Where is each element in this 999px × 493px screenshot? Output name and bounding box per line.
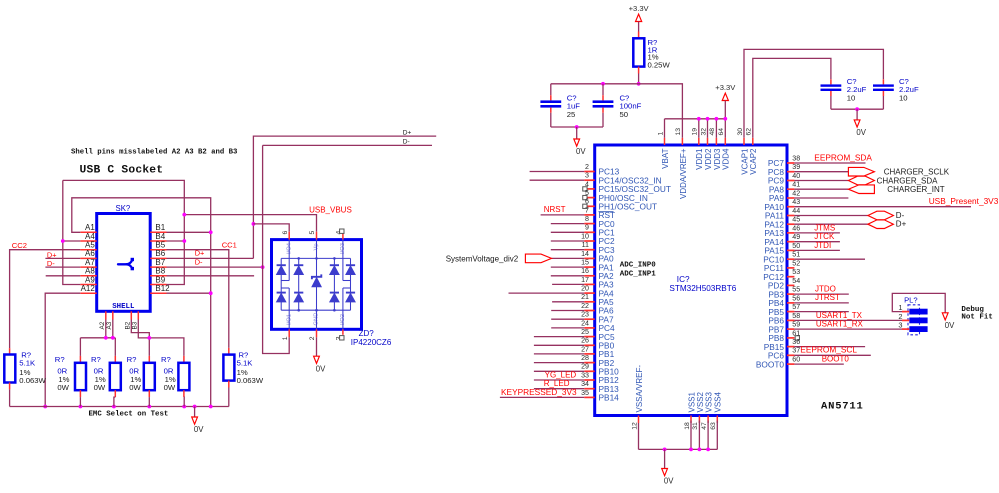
pin 50 PA15 [787,249,794,251]
svg-text:41: 41 [792,181,800,189]
wire CC2 resistor bottom to rail [9,389,11,406]
svg-text:EEPROM_SDA: EEPROM_SDA [814,152,872,162]
svg-text:ADC_INP0: ADC_INP0 [620,262,657,270]
pin 5 PH0/OSC_IN [584,197,594,199]
wire +3.3V to VDD bus [724,101,726,119]
pin 53 PC12 [787,276,794,278]
svg-text:15: 15 [581,259,589,267]
svg-text:IC?: IC? [677,275,690,284]
svg-text:24: 24 [581,319,589,327]
pin 39 PC8 [787,171,794,173]
pin 37 PC6 [787,354,794,356]
pin 34 PB13 [584,388,594,390]
pin 54 PD2 [787,284,794,286]
svg-text:VCAP1: VCAP1 [740,148,749,175]
svg-text:27: 27 [581,345,589,353]
junction USB_VBUS tap [182,213,186,217]
svg-text:ADC_INP1: ADC_INP1 [620,270,657,278]
svg-text:30: 30 [737,128,744,136]
svg-text:19: 19 [692,128,699,136]
junction A12-rail [43,405,47,409]
power symbol +3.3V (above R 1R) [636,14,642,21]
svg-text:YG_LED: YG_LED [545,371,577,380]
svg-text:17: 17 [581,276,589,284]
svg-text:B8: B8 [155,267,165,276]
wire CC1 resistor bottom to rail [228,388,230,407]
ZD diodes [277,265,356,302]
svg-text:10: 10 [899,93,908,102]
pin 57 PB5 [787,311,794,313]
svg-text:0V: 0V [664,477,674,486]
pin 29 PB10 [584,370,594,372]
wire VSS3 riser [707,421,709,450]
svg-text:45: 45 [792,216,800,224]
svg-text:VSSA/VREF-: VSSA/VREF- [635,365,644,413]
svg-text:VSS3: VSS3 [705,391,714,412]
svg-text:0V: 0V [194,425,204,434]
resistor R? 5.1K (CC1) [228,348,230,355]
mcu IC? STM32H503RBT6 body [595,145,787,416]
ZD pin 6 stub [288,232,290,240]
wire net USB_VBUS: B4 to vertical [167,240,185,242]
ZD center zener diode [312,274,321,286]
svg-text:42: 42 [792,189,800,197]
svg-text:50: 50 [620,110,629,119]
svg-text:R?: R? [55,355,65,364]
wire net GND: B1 to vertical [167,231,211,233]
junction A4 [61,239,65,243]
svg-text:D-: D- [896,211,905,220]
svg-text:62: 62 [746,128,753,136]
wire net D-: riser and top run [263,144,432,146]
svg-text:B7: B7 [155,258,165,267]
svg-text:28: 28 [581,354,589,362]
svg-text:64: 64 [718,128,725,136]
svg-text:29: 29 [581,363,589,371]
PL? pin 3 [909,326,927,332]
pin 22 PA6 [584,310,594,312]
svg-text:18: 18 [684,422,691,430]
svg-text:0V: 0V [576,147,586,156]
pin 18 VSS1 [690,416,692,424]
esd array ZD? IP4220CZ6 body [272,240,362,330]
wire shell pins to 0R resistors group A [105,320,107,338]
svg-text:56: 56 [792,294,800,302]
svg-text:A4: A4 [85,232,95,241]
svg-text:3: 3 [585,172,589,180]
socket left pins A1-A12 stubs and names [80,231,96,233]
no-connect square pin 3 [340,336,344,340]
svg-text:0W: 0W [164,383,176,392]
ZD internal diode network [281,240,350,330]
pin 14 PA0 [584,257,594,259]
pin 62 VCAP2 [752,138,754,145]
pin 2 PC13 [584,171,594,173]
wire PL? pin1 to ground loop [892,293,945,312]
pin 8 PC0 [584,223,594,225]
svg-text:47: 47 [701,422,708,430]
wire +3.3V to resistor R 1R [638,22,640,32]
svg-text:5.1K: 5.1K [237,359,254,368]
svg-text:39: 39 [792,163,800,171]
no-connect square pin 4 [340,229,344,233]
wire VSS2 riser [698,421,700,450]
ground symbol 0V (EMC rail) [194,407,196,418]
usb trident symbol [118,260,132,268]
svg-text:0V: 0V [945,321,955,330]
wire VDD2 riser [707,119,709,138]
junction D+ branch to ZD pin6 [252,222,256,226]
wire shell pins to 0R resistors group B [131,320,149,356]
pin 17 PA3 [584,283,594,285]
svg-text:33: 33 [581,371,589,379]
svg-text:A9: A9 [85,275,95,284]
2.2uF caps bottom rail [831,108,884,110]
svg-text:44: 44 [792,207,800,215]
svg-text:B4: B4 [155,232,165,241]
svg-text:D-: D- [403,139,410,146]
svg-text:26: 26 [581,337,589,345]
port CHARGER_SCLK [848,167,874,176]
svg-text:D+: D+ [403,129,412,136]
resistor R? 0R #3 [148,356,150,363]
svg-text:EMC Select on Test: EMC Select on Test [89,411,169,419]
svg-text:B12: B12 [155,284,170,293]
power symbol +3.3V (VDD bus) [722,93,728,100]
svg-text:IP4220CZ6: IP4220CZ6 [351,338,392,347]
pin 46 PA13 [787,232,794,234]
svg-text:51: 51 [792,251,800,259]
svg-text:A3: A3 [106,321,113,329]
pin 32 VDD2 [707,138,709,145]
svg-text:A7: A7 [85,258,95,267]
svg-text:0V: 0V [856,128,866,137]
wire VSSA to gnd rail [638,423,640,449]
junction cap 100nF top [601,82,605,86]
wire VSS1 riser [690,421,692,450]
pin 10 PC2 [584,240,594,242]
svg-text:1: 1 [898,303,902,312]
ZD pin 4 stub (NC) [342,233,344,240]
svg-text:D+: D+ [896,220,907,229]
ground symbol 0V (caps) [576,127,578,139]
ZD pin 1 stub [288,329,290,337]
svg-text:BOOT0: BOOT0 [822,355,850,364]
svg-text:57: 57 [792,303,800,311]
pin 48 VDD3 [715,138,717,145]
pin 4 PC15/OSC32_OUT [584,188,594,190]
svg-text:VDD2: VDD2 [704,148,713,170]
wire net USB_VBUS: A4/A9 left loop [63,240,81,242]
svg-text:CHARGER_SDA: CHARGER_SDA [877,176,939,185]
svg-text:R?: R? [91,355,101,364]
pin 63 VSS4 [716,416,718,424]
wire net D+: riser and top run [253,136,436,258]
svg-text:5: 5 [309,231,316,235]
ground symbol 0V (VSS) [664,449,666,468]
svg-text:A1: A1 [85,223,95,232]
svg-text:50: 50 [792,242,800,250]
wire net GND: B12 to vertical [167,292,211,294]
svg-text:60: 60 [792,356,800,364]
svg-text:R?: R? [127,355,137,364]
svg-text:D-: D- [195,257,203,266]
pin 59 PB7 [787,328,794,330]
pin 12 VSSA/VREF- [638,416,640,424]
pin 41 PA8 [787,188,794,190]
pin 47 VSS3 [707,416,709,424]
svg-text:JTCK: JTCK [814,232,835,241]
svg-text:VSS4: VSS4 [714,391,723,412]
wire VDD1 riser [698,119,700,138]
svg-text:9: 9 [585,224,589,232]
svg-text:ZD?: ZD? [359,329,375,338]
svg-text:0.063W: 0.063W [19,376,46,385]
wire VBAT riser [664,119,666,138]
svg-text:PL?: PL? [904,295,918,304]
ground rail EMC [10,406,229,408]
svg-text:37: 37 [792,347,800,355]
wire VDD4 riser [724,119,726,138]
svg-text:VSS2: VSS2 [696,391,705,412]
svg-text:NRST: NRST [544,205,566,214]
svg-text:52: 52 [792,259,800,267]
svg-text:B6: B6 [155,249,165,258]
junction R-rail [637,82,641,86]
resistor R? 0R #1 [79,356,81,363]
svg-text:VDD4: VDD4 [722,148,731,170]
pin 25 PC5 [584,336,594,338]
svg-text:USART1_RX: USART1_RX [816,320,864,329]
pin 40 PC9 [787,180,794,182]
wire net D+: B6 to vertical riser [167,257,254,259]
svg-text:+3.3V: +3.3V [629,4,650,13]
pin 36 PB15 [787,346,794,348]
wire R 1R bottom to filtered rail [638,74,640,84]
svg-text:6: 6 [282,231,289,235]
svg-text:23: 23 [581,311,589,319]
svg-text:USART1_TX: USART1_TX [816,311,863,320]
svg-text:VDDA/VREF+: VDDA/VREF+ [679,148,688,199]
pin 1 VBAT [664,138,666,145]
svg-text:11: 11 [582,241,589,249]
ZD junction dots [297,257,300,260]
pin 30 VCAP1 [743,138,745,145]
usb-c socket connector SK? body [97,214,151,312]
svg-text:59: 59 [792,321,800,329]
pin 55 PB3 [787,293,794,295]
svg-text:14: 14 [581,250,589,258]
port D+ [868,220,894,229]
pin 38 PC7 [787,162,794,164]
pin 58 PB6 [787,319,794,321]
PL? pin 1 [909,309,927,315]
pin 15 PA1 [584,266,594,268]
svg-text:SystemVoltage_div2: SystemVoltage_div2 [446,254,519,263]
wire ZD pin2 to ground [316,337,318,356]
svg-text:A8: A8 [85,267,95,276]
pin 11 PC3 [584,249,594,251]
svg-text:USB C Socket: USB C Socket [80,164,164,176]
svg-text:B9: B9 [155,275,165,284]
svg-text:1: 1 [282,336,289,340]
svg-text:35: 35 [581,389,589,397]
ZD pin 3 stub (NC) [342,329,344,335]
junction caps gnd tap [575,125,579,129]
svg-text:KEYPRESSED_3V3: KEYPRESSED_3V3 [501,387,577,397]
svg-text:A5: A5 [85,241,95,250]
svg-text:JTRST: JTRST [815,293,840,302]
PL? pin 2 [909,318,927,324]
svg-text:0.063W: 0.063W [237,376,264,385]
svg-text:R?: R? [161,355,171,364]
VDD bus [665,118,726,120]
wire net D+: A6 stub wire [45,257,80,259]
svg-text:54: 54 [792,277,800,285]
svg-text:63: 63 [710,422,717,430]
svg-text:SHELL: SHELL [112,303,135,311]
svg-text:EEPROM_SCL: EEPROM_SCL [800,345,857,355]
svg-text:5.1K: 5.1K [19,359,36,368]
svg-text:+3.3V: +3.3V [715,83,736,92]
svg-text:2: 2 [898,312,902,321]
junction rail taps [79,405,83,409]
caps bottom rail [551,126,603,128]
wire VCAP2 to cap 2.2uF #1 [753,58,831,137]
svg-text:B2: B2 [124,321,131,329]
svg-text:CC1: CC1 [222,241,237,250]
pin 49 PA14 [787,241,794,243]
pin 43 PA10 [787,206,794,208]
svg-text:8: 8 [585,215,589,223]
svg-text:CC2: CC2 [12,241,27,250]
resistor R? 0R #2 [114,356,116,363]
junction VSS rail dots [663,448,667,452]
svg-text:20: 20 [581,285,589,293]
svg-text:25: 25 [581,328,589,336]
svg-text:31: 31 [692,422,699,430]
svg-text:22: 22 [581,302,589,310]
wire net GND: A1 loop to B1/B12 and ground rail [72,198,211,407]
svg-text:7: 7 [585,206,589,214]
port SystemVoltage_div2 [525,254,551,263]
junction B1 [209,230,213,234]
svg-text:25: 25 [567,110,576,119]
pin 23 PA7 [584,318,594,320]
pin 19 VDD1 [698,138,700,145]
wire net D-: B7 junction [167,266,263,268]
ground symbol 0V (ZD) [314,356,320,363]
ground symbol 0V (2.2uF caps) [856,109,858,120]
svg-text:46: 46 [792,224,800,232]
wire net CC1: B5 to right 5.1K resistor [167,250,229,348]
capacitor C? 2.2uF 10 #2 [882,79,884,84]
svg-text:32: 32 [700,128,707,136]
svg-text:CHARGER_INT: CHARGER_INT [887,185,944,194]
pin 21 PA5 [584,301,594,303]
pin 60 BOOT0 [787,363,794,365]
svg-text:SK?: SK? [116,204,131,213]
pin 27 PB1 [584,353,594,355]
port CHARGER_SDA [848,176,874,185]
svg-text:2: 2 [309,336,316,340]
socket right pins B1-B12 stubs and names [150,231,166,233]
svg-text:36: 36 [792,338,800,346]
svg-text:PB14: PB14 [599,393,620,403]
svg-text:58: 58 [792,312,800,320]
svg-text:10: 10 [581,232,589,240]
svg-text:2: 2 [585,163,589,171]
svg-text:0.25W: 0.25W [648,61,671,70]
svg-text:JTMS: JTMS [814,223,835,232]
pin 7 RST [584,214,594,216]
pin 24 PC4 [584,327,594,329]
svg-text:1: 1 [657,132,664,136]
svg-text:VDD1: VDD1 [695,148,704,170]
svg-text:JTDI: JTDI [814,241,831,250]
pin 6 PH1/OSC_OUT [584,205,594,207]
capacitor C? 2.2uF 10 #1 [830,79,832,84]
svg-text:B5: B5 [155,241,165,250]
svg-text:48: 48 [709,128,716,136]
svg-text:Shell pins misslabeled A2 A3 B: Shell pins misslabeled A2 A3 B2 and B3 [71,149,238,157]
svg-text:43: 43 [792,198,800,206]
svg-text:USB_Present_3V3: USB_Present_3V3 [929,196,999,206]
svg-text:16: 16 [581,267,589,275]
svg-text:B1: B1 [155,223,165,232]
pin 3 PC14/OSC32_IN [584,179,594,181]
resistor R? 5.1K (CC2) [9,348,11,354]
resistor R? 0R #4 [183,356,185,363]
svg-text:A2: A2 [99,321,106,329]
svg-text:0W: 0W [57,383,69,392]
svg-text:40: 40 [792,172,800,180]
wire VCAP1 to cap 2.2uF #2 [744,49,883,137]
pin 28 PB2 [584,362,594,364]
svg-text:12: 12 [631,422,638,430]
pin 61 PB8 [787,337,794,339]
svg-text:0W: 0W [94,383,106,392]
wire net D-: A7 stub wire [45,266,80,268]
svg-text:USB_VBUS: USB_VBUS [309,206,352,215]
junction 2.2uF gnd tap [855,107,859,111]
wire net D+: branch to ZD pin 6 [253,224,289,232]
pin 20 PA4 [584,292,594,294]
svg-text:A12: A12 [81,284,96,293]
svg-text:10: 10 [847,93,856,102]
svg-text:CHARGER_SCLK: CHARGER_SCLK [884,168,950,177]
filtered rail to VDDA [551,84,683,138]
pin 51 PC10 [787,258,794,260]
pin 52 PC11 [787,267,794,269]
capacitor C? 100nF 50 [602,84,604,95]
pin 35 PB14 [584,396,594,398]
pin 13 VDDA/VREF+ [681,138,683,145]
pin 31 VSS2 [698,416,700,424]
pin 64 VDD4 [724,138,726,145]
pin 56 PB4 [787,302,794,304]
port CHARGER_INT [848,185,874,194]
ZD pin 2 stub [316,329,318,337]
pin 45 PA12 [787,223,794,225]
svg-text:B3: B3 [131,321,138,329]
pin 42 PA9 [787,197,794,199]
svg-text:Not Fit: Not Fit [961,314,993,322]
wire VDD3 riser [715,119,717,138]
svg-text:VBAT: VBAT [661,148,670,168]
svg-text:53: 53 [792,268,800,276]
junction VDD bus dots [697,117,701,121]
